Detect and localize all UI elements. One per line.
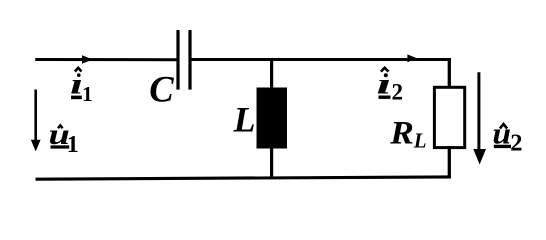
label i2 dot [384,73,388,77]
capacitor C left plate [176,30,179,90]
voltage arrow u2 head [473,149,486,165]
current arrow i2 head [407,54,417,62]
capacitor C right plate [188,30,191,90]
svg-text:L: L [233,99,256,139]
label u1 letter [49,119,70,151]
svg-text:1: 1 [82,82,93,106]
label u2 letter [492,116,511,150]
label i1 underline [71,96,82,100]
svg-text:1: 1 [67,132,79,158]
label i2 letter body [376,67,391,100]
label i2 hat [381,68,389,72]
bottom wire [36,177,451,179]
wire top-left segment [35,58,177,61]
inductor branch wire top [270,58,273,89]
label u2 hat [500,124,507,128]
label i2 underline [379,95,391,98]
label i1 letter body [70,68,83,101]
label u2 underline [494,145,511,148]
wire top-right segment [191,58,450,61]
inductor L body [257,88,288,149]
svg-text:R: R [389,115,414,152]
resistor RL body [434,87,464,147]
resistor branch wire bottom [448,146,451,178]
label i1 dot [77,73,81,77]
label i1 hat [75,68,82,72]
resistor branch wire top [448,58,451,88]
inductor branch wire bottom [270,147,273,179]
voltage arrow u2 shaft [477,72,480,151]
svg-text:2: 2 [391,80,403,105]
voltage arrow u1 head [31,140,41,152]
svg-text:2: 2 [510,129,522,156]
voltage arrow u1 shaft [34,90,37,142]
label u1 hat [58,125,63,128]
svg-text:C: C [149,68,174,109]
current arrow i1 head [82,55,93,64]
label u1 underline [51,145,70,148]
svg-text:L: L [413,128,427,152]
label RL letter R [389,115,414,152]
